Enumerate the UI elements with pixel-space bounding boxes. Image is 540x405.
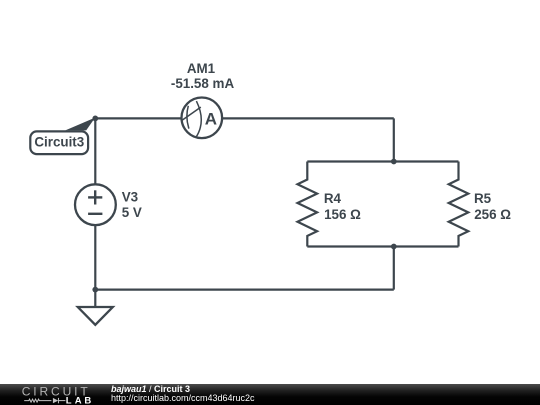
svg-text:256 Ω: 256 Ω [474,207,511,222]
logo LAB wordmark [66,395,92,405]
wire bottom return to ground node [95,289,394,291]
svg-text:A: A [75,395,82,405]
footer bar [0,384,540,405]
node A junction dot top-left [92,116,98,122]
svg-text:B: B [84,395,91,405]
voltage source V3 body [75,184,116,225]
junction dot bottom of parallel network [391,244,397,250]
wire middle vertical from bottom rail to bottom wire [393,247,395,290]
wire top from node A through AM1 to right corner [95,117,394,119]
voltage source V3 plus sign [88,190,102,214]
logo resistor-diode line [24,398,65,403]
svg-text:-51.58 mA: -51.58 mA [171,76,235,91]
resistor R4 [298,162,318,247]
logo diode triangle [53,398,58,403]
resistor R5 [449,162,469,247]
wire bottom rail of parallel resistors [307,245,458,247]
svg-text:V3: V3 [122,189,138,204]
svg-text:L: L [66,395,72,405]
Circuit3 flag pointer [65,118,95,131]
wire right vertical down to parallel network [393,118,395,161]
junction dot ground node [92,287,98,293]
svg-text:R5: R5 [474,191,492,206]
wire top rail of parallel resistors [307,160,458,162]
ammeter AM1 needle [181,107,201,121]
wire left vertical through V3 [94,118,96,289]
ammeter AM1 body [182,98,223,139]
svg-text:AM1: AM1 [187,61,216,76]
svg-text:Circuit3: Circuit3 [34,134,84,149]
ground [78,307,113,325]
junction dot top of parallel network [391,159,397,165]
footer url text [111,394,255,403]
Circuit3 flag box [30,131,88,154]
wire ground stem [94,290,96,307]
svg-text:156 Ω: 156 Ω [324,207,361,222]
svg-text:R4: R4 [324,191,342,206]
voltage source V3 minus sign [88,213,102,215]
svg-text:A: A [205,110,217,129]
svg-text:5 V: 5 V [122,205,142,220]
ammeter AM1 meter arcs [181,101,201,138]
footer title text [111,385,190,394]
